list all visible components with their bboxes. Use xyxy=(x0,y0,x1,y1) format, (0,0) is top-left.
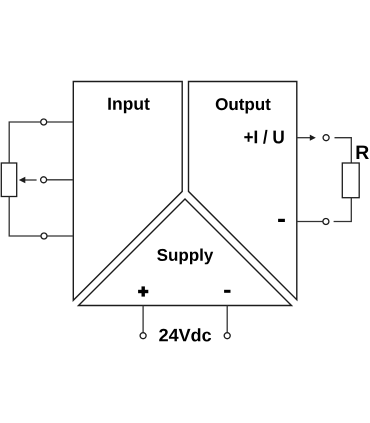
label 24Vdc xyxy=(159,328,211,341)
supply terminal - xyxy=(224,333,230,339)
potentiometer wiper arrow xyxy=(24,179,37,181)
supply terminal + xyxy=(140,333,146,339)
label R xyxy=(357,146,369,159)
wire: supply plus lead xyxy=(142,306,144,333)
terminal label minus (supply) xyxy=(224,290,230,293)
wire: terminal 3 to Input panel xyxy=(47,235,73,237)
label Input xyxy=(108,98,149,114)
converter body: Output section panel xyxy=(189,82,297,300)
terminal label +I / U xyxy=(244,130,283,144)
output terminal minus xyxy=(323,219,329,225)
converter body: Input section panel xyxy=(73,82,182,301)
input terminal 1 xyxy=(41,119,47,125)
resistor R xyxy=(342,163,359,198)
potentiometer xyxy=(1,163,16,197)
wire: minus terminal to Output panel xyxy=(297,221,323,223)
wire: supply minus lead xyxy=(226,306,228,333)
wire: pot bottom lead to input terminal 3 xyxy=(9,197,41,237)
converter body: Supply section panel xyxy=(79,199,292,306)
input terminal 2 (wiper) xyxy=(41,177,47,183)
arrow head (+I/U output direction) xyxy=(310,135,316,141)
terminal label minus (output) xyxy=(278,219,285,222)
wire: Output panel to +I/U arrow xyxy=(297,137,311,139)
output terminal +I/U xyxy=(323,135,329,141)
wire: terminal 2 to Input panel xyxy=(47,179,73,181)
wire: pot top lead to input terminal 1 xyxy=(9,122,40,163)
label Output xyxy=(216,98,271,113)
terminal label + (supply plus) xyxy=(138,286,148,296)
wire: terminal to resistor top xyxy=(335,138,352,163)
label Supply xyxy=(157,249,213,265)
input terminal 3 xyxy=(41,233,47,239)
wire: resistor bottom to output minus terminal xyxy=(334,198,352,222)
wire: terminal 1 to Input panel xyxy=(47,121,73,123)
